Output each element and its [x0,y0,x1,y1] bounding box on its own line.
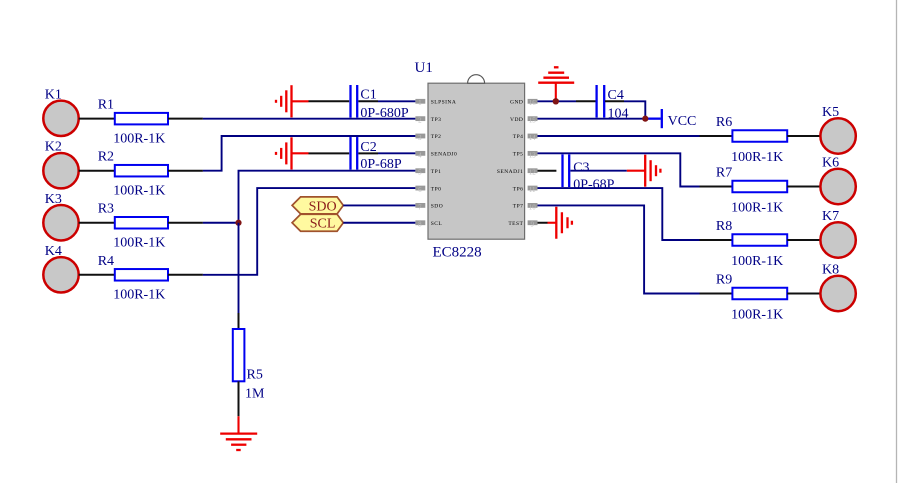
wire [238,381,240,416]
wire [538,118,647,120]
pin 1 SLPSINA [415,99,456,107]
svg-text:TP2: TP2 [431,134,442,140]
resistor R4 [98,254,168,303]
svg-text:100R-1K: 100R-1K [113,288,165,303]
node junction VDD [642,116,648,122]
wire [605,100,624,102]
wire [79,118,115,120]
sheet border line [896,0,898,483]
resistor R2 [98,150,168,199]
svg-text:100R-1K: 100R-1K [731,308,783,323]
svg-text:K6: K6 [822,156,839,171]
pad K6 [820,156,855,205]
svg-text:SDO: SDO [431,204,443,210]
pad K3 [43,192,78,241]
svg-text:R4: R4 [98,254,114,269]
wire [343,204,415,206]
pin 12 SENADJ1 [497,168,538,176]
svg-text:K1: K1 [45,87,62,102]
wire [538,222,548,224]
pad K8 [820,263,855,311]
node junction [235,220,241,226]
pad K1 [43,87,78,136]
resistor R1 [98,98,168,147]
wire [700,239,733,241]
resistor R5 [233,329,265,402]
wire [624,101,645,118]
wire [700,135,733,137]
capacitor C1 [351,85,409,121]
pin 4 SENADJ0 [415,151,457,159]
svg-text:TEST: TEST [508,221,523,227]
pin 5 TP1 [415,168,441,176]
wire [787,293,820,295]
svg-text:12: 12 [529,169,537,177]
resistor R9 [716,273,787,323]
pin 7 SDO [415,203,443,211]
capacitor C4 [597,85,629,121]
svg-text:K8: K8 [822,263,839,278]
svg-text:R8: R8 [716,219,732,234]
wire [168,274,203,276]
net label SDO [292,197,343,214]
svg-text:16: 16 [529,99,537,107]
wire [309,100,350,102]
pin 16 GND [510,99,537,107]
svg-text:100R-1K: 100R-1K [113,183,165,198]
svg-text:9: 9 [530,221,534,229]
ground GND-left-C1 [276,85,309,117]
pad K4 [43,244,78,293]
wire [538,100,577,102]
wire [576,100,596,102]
svg-text:VCC: VCC [668,114,697,129]
svg-text:1: 1 [418,99,422,107]
svg-text:GND: GND [510,100,523,106]
svg-text:100R-1K: 100R-1K [113,236,165,251]
op-amp U1 body [415,60,525,261]
wire [538,188,700,240]
wire [79,274,115,276]
svg-text:R2: R2 [98,150,114,165]
resistor R3 [98,202,168,251]
wire [358,100,378,102]
svg-text:K2: K2 [45,140,62,155]
pin 14 TP4 [513,134,538,142]
pin 15 VDD [510,116,537,124]
svg-text:U1: U1 [415,60,433,76]
svg-text:C3: C3 [573,161,589,176]
svg-text:15: 15 [529,117,537,125]
pin 11 TP6 [513,186,538,194]
ground bottom R5 [220,416,257,450]
svg-text:100R-1K: 100R-1K [731,201,783,216]
power VCC [662,109,697,129]
wire [79,170,115,172]
pin 2 TP3 [415,116,441,124]
pad K5 [820,105,855,154]
svg-text:TP0: TP0 [431,186,442,192]
wire [168,118,203,120]
wire [538,170,557,172]
svg-text:TP1: TP1 [431,169,442,175]
wire [239,171,416,223]
svg-text:SCL: SCL [431,221,443,227]
svg-text:1M: 1M [245,387,265,402]
wire [238,313,240,329]
wire [238,223,240,313]
pin 10 TP7 [513,203,538,211]
svg-text:100R-1K: 100R-1K [731,254,783,269]
svg-text:0P-68P: 0P-68P [573,178,614,193]
wire [378,152,415,154]
capacitor C2 [351,137,402,172]
svg-text:R3: R3 [98,202,114,217]
wire [79,222,115,224]
wire [203,222,239,224]
wire [203,118,416,120]
wire [700,293,733,295]
svg-text:TP4: TP4 [513,134,524,140]
ground right C3 [627,155,661,187]
node junction GND [553,98,559,104]
svg-text:R7: R7 [716,166,732,181]
svg-text:SCL: SCL [310,217,336,232]
ground top GND-pin [538,67,574,101]
pad K7 [820,209,855,258]
pin 9 TEST [508,220,537,228]
pad K2 [43,140,78,189]
svg-text:2: 2 [418,117,422,125]
wire [203,136,416,171]
svg-text:4: 4 [418,151,422,159]
svg-text:14: 14 [529,134,537,142]
svg-text:13: 13 [529,151,537,159]
wire [378,100,415,102]
wire [203,188,416,275]
svg-text:R6: R6 [716,115,732,130]
wire [309,152,350,154]
svg-text:K5: K5 [822,105,839,120]
resistor R6 [716,115,787,165]
svg-text:100R-1K: 100R-1K [113,131,165,146]
wire [538,153,700,186]
svg-text:TP6: TP6 [513,186,524,192]
svg-text:SLPSINA: SLPSINA [431,100,456,106]
svg-text:VDD: VDD [510,117,523,123]
svg-text:5: 5 [418,169,422,177]
net label SCL [292,214,343,231]
wire [570,170,626,172]
wire [787,239,820,241]
svg-text:3: 3 [418,134,422,142]
wire [343,222,415,224]
svg-text:R1: R1 [98,98,114,113]
wire [538,135,700,137]
capacitor C3 [563,154,615,192]
ground right TEST [548,207,572,239]
pin 8 SCL [415,220,442,228]
svg-text:6: 6 [418,186,422,194]
svg-text:7: 7 [418,203,422,211]
wire [787,135,820,137]
svg-text:C1: C1 [360,87,376,102]
svg-text:K3: K3 [45,192,62,207]
svg-text:R9: R9 [716,273,732,288]
wire [168,170,203,172]
svg-text:SDO: SDO [309,199,337,214]
svg-text:TP3: TP3 [431,117,442,123]
wire [787,186,820,188]
svg-text:EC8228: EC8228 [433,245,482,261]
svg-text:10: 10 [529,203,537,211]
svg-text:TP5: TP5 [513,152,524,158]
pin 6 TP0 [415,186,441,194]
resistor R7 [716,166,787,216]
wire [538,205,700,293]
pin 3 TP2 [415,134,441,142]
wire [358,152,378,154]
svg-text:SENADJ0: SENADJ0 [431,152,457,158]
svg-text:100R-1K: 100R-1K [731,150,783,165]
svg-text:SENADJ1: SENADJ1 [497,169,523,175]
svg-text:11: 11 [529,186,536,194]
wire [700,186,733,188]
ground GND-left-C2 [276,137,309,169]
svg-text:TP7: TP7 [513,204,524,210]
resistor R8 [716,219,787,269]
svg-text:R5: R5 [247,368,263,383]
pin 13 TP5 [513,151,538,159]
svg-text:K7: K7 [822,209,839,224]
wire [168,222,203,224]
svg-text:8: 8 [418,221,422,229]
svg-text:K4: K4 [45,244,62,259]
